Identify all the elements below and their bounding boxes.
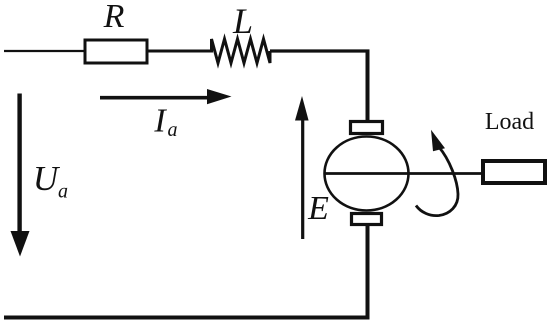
svg-text:Load: Load xyxy=(485,109,534,135)
wire: inductor to top-right corner xyxy=(270,49,370,52)
wire: vertical down to motor top brush xyxy=(366,50,370,122)
svg-text:a: a xyxy=(168,119,178,141)
wire: motor bottom brush down xyxy=(366,225,370,320)
rotation arrow (curved) xyxy=(416,147,458,216)
svg-text:E: E xyxy=(307,190,329,227)
motor armature circle xyxy=(325,137,409,211)
load block xyxy=(483,161,545,183)
shaft line through motor to load xyxy=(324,172,483,175)
arrow Ua (voltage, downward) xyxy=(17,94,21,233)
wire: bottom return xyxy=(4,316,370,320)
svg-text:L: L xyxy=(232,1,253,41)
brush (bottom) xyxy=(352,214,382,225)
svg-text:I: I xyxy=(153,103,167,140)
wire: resistor to inductor xyxy=(147,50,213,53)
svg-text:R: R xyxy=(103,0,125,35)
wire: top-left input lead xyxy=(4,50,85,52)
arrow E (back EMF, upward) xyxy=(301,114,304,239)
svg-text:a: a xyxy=(58,181,68,203)
arrow Ia (current direction) xyxy=(100,96,208,100)
svg-text:U: U xyxy=(33,159,61,198)
inductor L (zigzag) xyxy=(212,39,271,63)
resistor R xyxy=(85,40,147,63)
brush (top) xyxy=(351,122,383,134)
